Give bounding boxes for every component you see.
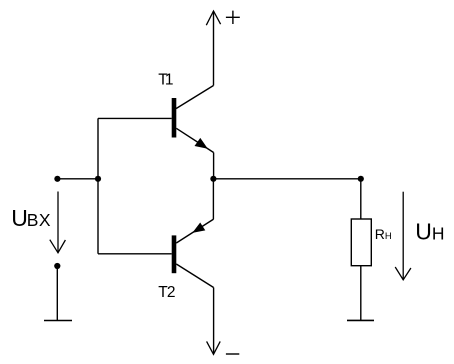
svg-text:UВХ: UВХ [11,205,51,231]
wire: output horizontal [213,178,360,180]
label + (plus supply) [226,11,240,24]
ground (input side) [44,320,72,322]
wire: T2 emitter diagonal [176,219,213,243]
transistor T2 base bar [172,235,177,273]
resistor Rн body [351,219,371,266]
wire: output node to resistor [360,179,362,219]
ground (load side) [347,319,374,321]
node: output junction dot [210,176,216,182]
arrowhead: Uвх (down) [50,240,66,253]
wire: output node down to T2 emitter [212,179,214,219]
wire: positive supply vertical [213,11,215,86]
wire: bottom terminal to ground [56,266,58,321]
arrow: T1 emitter (NPN, pointing out) [195,138,208,149]
node: input terminal bottom dot [54,263,60,269]
wire: T2 collector to negative supply [213,288,215,355]
wire: T2 base horizontal [98,253,172,255]
svg-text:RН: RН [375,226,392,242]
label - (minus supply) [226,353,239,355]
arrowhead: positive supply (up) [206,11,220,25]
svg-text:T1: T1 [158,71,173,88]
wire: T1 base horizontal [98,117,172,119]
arrow shaft: Uн voltage arrow [402,192,404,280]
node: input terminal top dot [54,176,60,182]
arrowhead: Uн (down) [395,267,411,280]
node: input bus junction dot [95,176,101,182]
wire: T1 collector diagonal [176,86,214,109]
wire: T1 emitter diagonal [176,128,213,152]
svg-text:T2: T2 [158,284,175,301]
arrow shaft: Uвх voltage arrow [57,192,59,253]
arrowhead: negative supply (down) [207,341,221,354]
wire: resistor to ground [360,266,362,321]
wire: T1 emitter to output node [213,153,215,179]
wire: input terminal horizontal [57,178,98,180]
node: load junction dot [358,176,364,182]
wire: T2 collector diagonal [176,264,213,288]
transistor T1 base bar [172,98,177,138]
svg-text:UН: UН [415,218,444,244]
wire: input bus vertical [97,118,99,253]
arrow: T2 emitter (PNP, pointing in) [192,223,205,233]
